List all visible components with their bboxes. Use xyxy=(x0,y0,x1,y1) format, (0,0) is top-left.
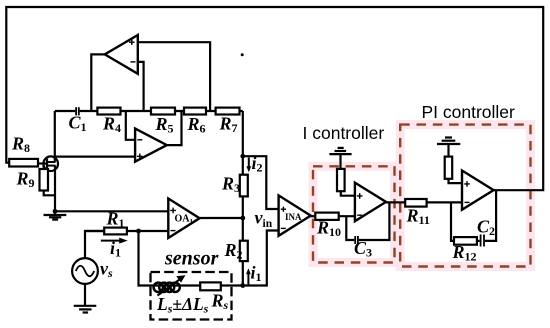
resistor R12 xyxy=(454,237,477,245)
resistor R4 xyxy=(97,108,120,115)
resistor (PI controller, to ground) xyxy=(445,157,462,184)
source vs xyxy=(72,231,104,305)
node: sensor junction xyxy=(240,283,245,288)
node: R1 / OA1- junction xyxy=(136,229,141,234)
wire: C3 feedback (right side to output) xyxy=(359,202,390,240)
arrow (variable inductor) xyxy=(158,275,186,295)
ground (below Q1) xyxy=(44,209,67,220)
svg-text:I controller: I controller xyxy=(303,123,385,143)
wire: R12 to C2 xyxy=(477,240,480,242)
op-amp U5 (I controller) xyxy=(355,183,386,222)
arrow i1 (right column) xyxy=(246,268,251,284)
wire: U1 + input to R6/R7 node xyxy=(138,42,210,111)
wire: C2 feedback (right side to output) xyxy=(485,190,496,241)
ground (below vs) xyxy=(74,306,97,313)
transistor Q1 xyxy=(43,156,58,171)
wire: U1 - input to R4/R5 node xyxy=(138,62,144,111)
wire: R12/C2 feedback (left side) xyxy=(451,202,454,241)
op-amp INA xyxy=(279,195,311,235)
wire: outer feedback loop (PI output to R8) xyxy=(6,7,543,190)
wire: Q1 drain to resistor row xyxy=(54,111,56,162)
PI controller pink highlight xyxy=(400,125,530,267)
op-amp U2 (feedback, below row) xyxy=(135,129,167,162)
wire: U1 output down to row (C1/R4 node) xyxy=(91,54,105,111)
capacitor C2 xyxy=(481,235,484,247)
resistor R3 xyxy=(240,175,248,197)
node: column / INA+ tap xyxy=(240,154,245,159)
arrow i1 (under R1) xyxy=(101,238,128,244)
capacitor C3 xyxy=(355,236,358,244)
resistor R11 xyxy=(405,199,462,207)
wire: U2 - input to R4/R5 node xyxy=(126,111,135,140)
wire: ground node to OA1 + input xyxy=(55,210,168,212)
op-amp U6 (PI controller) xyxy=(462,171,494,210)
wire: main column (R7 node down to sensor node) xyxy=(242,111,244,286)
wire: top resistor row xyxy=(55,110,243,112)
resistor R1 xyxy=(85,228,127,235)
resistor R6 xyxy=(184,108,206,115)
svg-text:Ls±ΔLs: Ls±ΔLs xyxy=(156,294,209,316)
wire: OA1 output to v_in node xyxy=(200,217,243,219)
wire: Q1 source to ground xyxy=(54,166,56,212)
op-amp U1 (top, output at left) xyxy=(105,35,138,74)
ground (PI controller) xyxy=(437,138,460,157)
I controller pink highlight xyxy=(313,166,395,262)
wire: I controller output to R11 xyxy=(386,201,405,203)
wire: R1 to OA1 - input xyxy=(127,230,168,232)
wire: U2 + input to Q1 drain xyxy=(55,156,135,158)
sensor dashed box xyxy=(151,272,232,320)
wire: U2 output to R5/R6 node xyxy=(167,111,182,145)
svg-text:sensor: sensor xyxy=(164,248,219,270)
resistor R2 xyxy=(240,241,248,261)
wire: sensor node to INA - input xyxy=(243,231,279,286)
stray dot xyxy=(241,53,244,56)
wire: INA output to R10 xyxy=(311,215,316,217)
I controller dashed box xyxy=(313,166,395,262)
resistor (I controller, to ground) xyxy=(337,169,355,196)
svg-text:INA: INA xyxy=(285,212,302,222)
wire: R1 node down to sensor xyxy=(139,231,155,286)
op-amp OA1 xyxy=(168,199,199,239)
wire: R8 to Q1 gate xyxy=(38,162,47,164)
capacitor C1 xyxy=(76,107,79,115)
resistor R5 xyxy=(151,108,175,115)
ground (I controller) xyxy=(329,148,351,169)
wire: C3 feedback (left side) xyxy=(346,216,354,240)
inductor Ls xyxy=(154,283,180,292)
PI controller dashed box xyxy=(400,125,530,267)
resistor R7 xyxy=(216,108,240,115)
resistor R8 xyxy=(9,159,38,167)
wire: column node to INA + input xyxy=(243,156,279,209)
resistor Rs xyxy=(180,282,243,290)
resistor R9 xyxy=(40,164,56,196)
resistor R10 xyxy=(315,213,355,220)
svg-text:PI controller: PI controller xyxy=(422,102,516,122)
arrow i2 xyxy=(246,158,251,173)
node: v_in / OA1 output xyxy=(240,216,245,221)
